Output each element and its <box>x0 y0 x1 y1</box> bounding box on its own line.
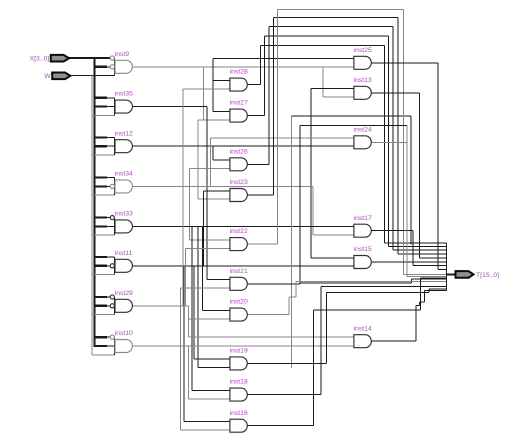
AND gate inst21 <box>230 268 248 290</box>
crossover wire y=116.2 <box>292 115 412 117</box>
wire to inst9 pin2 <box>107 66 111 68</box>
bus tap to inst34 pin2 <box>93 185 107 187</box>
wire <box>288 297 290 315</box>
inst12 -> inst15 pin1 <box>311 257 354 259</box>
wire <box>193 266 195 359</box>
wire to inst33 pin1 <box>107 217 111 219</box>
AND gate inst12 <box>115 130 134 155</box>
bus tap to inst12 pin2 <box>93 145 107 147</box>
net inst10 out <box>132 345 353 347</box>
bus tap to inst10 pin2 <box>93 345 107 347</box>
lane x=411.0 <box>410 116 412 244</box>
wire <box>187 346 189 399</box>
inst16 out -> comb <box>420 277 446 279</box>
net W to inst34 pin3 <box>92 194 115 196</box>
bus tap to inst9 pin2 <box>93 66 107 68</box>
wire <box>247 243 277 245</box>
bus tap to inst33 pin1 <box>93 217 107 219</box>
inst10 -> inst16 pin2 <box>181 429 230 431</box>
AND gate inst10 <box>110 330 133 355</box>
AND gate inst35 <box>115 91 134 116</box>
wire <box>415 306 417 342</box>
svg-text:inst24: inst24 <box>354 126 372 133</box>
wire <box>411 279 413 283</box>
inst9 -> inst23 pin2 <box>198 198 229 200</box>
svg-text:inst11: inst11 <box>115 250 133 257</box>
inst29 -> inst28 pin2 <box>183 88 230 90</box>
AND gate inst33 <box>110 211 133 236</box>
wire <box>403 10 405 275</box>
net inst35 out <box>132 106 207 108</box>
wire <box>312 310 314 426</box>
wire <box>247 362 326 364</box>
wire <box>312 186 314 235</box>
inst33 -> inst18 pin1 <box>192 389 229 391</box>
AND gate inst25 <box>354 47 372 69</box>
wire <box>387 36 389 246</box>
input port W <box>44 73 70 81</box>
wire <box>300 282 412 284</box>
net W to inst9 pin3 <box>71 75 115 77</box>
wire to inst29 pin1 <box>107 296 111 298</box>
AND gate inst11 <box>110 250 132 275</box>
wire <box>325 293 327 364</box>
AND gate inst24 <box>354 126 372 148</box>
wire to inst35 pin2 <box>107 106 115 108</box>
svg-text:inst12: inst12 <box>115 130 133 137</box>
wire <box>371 62 438 64</box>
AND gate inst28 <box>230 69 248 91</box>
wire <box>269 26 393 28</box>
svg-text:inst28: inst28 <box>230 69 248 76</box>
AND gate inst23 <box>230 179 248 201</box>
wire <box>206 107 208 280</box>
bus tap to inst29 pin2 <box>93 305 107 307</box>
wire <box>247 163 269 165</box>
crossover wire y=125.3 <box>300 124 407 126</box>
wire <box>185 248 187 305</box>
AND gate inst17 <box>354 215 372 237</box>
AND gate inst15 <box>354 246 372 268</box>
svg-text:inst35: inst35 <box>115 91 133 98</box>
inst13 out -> comb <box>419 257 446 259</box>
inst29 -> inst22 pin2 <box>186 247 230 249</box>
inst35 -> inst27 pin1 <box>213 110 229 112</box>
wire <box>418 93 420 258</box>
AND gate inst19 <box>230 348 248 370</box>
svg-text:inst15: inst15 <box>354 246 372 253</box>
svg-text:inst9: inst9 <box>115 51 130 58</box>
wire to inst34 pin1 <box>107 177 115 179</box>
svg-text:X[3..0]: X[3..0] <box>30 56 50 63</box>
wire <box>326 292 429 294</box>
wire <box>187 306 189 337</box>
inst19 out -> comb <box>429 288 447 290</box>
inst23 out -> comb <box>398 253 446 255</box>
wire <box>419 302 421 306</box>
output port T[15..0] <box>456 271 500 279</box>
bus tap to inst33 pin2 <box>93 225 107 227</box>
wire to inst29 pin2 <box>107 305 111 307</box>
AND gate inst22 <box>230 228 248 250</box>
bus join vertical <box>445 243 447 291</box>
AND gate inst18 <box>230 379 248 401</box>
inst11 -> inst16 pin1 <box>184 420 229 422</box>
inst9 -> inst13 pin2 <box>323 96 354 98</box>
inst29 -> inst20 pin2 <box>188 318 229 320</box>
wire <box>406 125 408 276</box>
wire <box>371 230 413 232</box>
inst22 out -> comb (stub line) <box>404 273 447 275</box>
inst15 out -> comb straight <box>371 261 446 263</box>
svg-text:inst29: inst29 <box>115 290 133 297</box>
wire <box>416 305 420 307</box>
inst17 out -> comb <box>413 265 446 267</box>
wire <box>197 226 199 367</box>
wire <box>320 287 322 395</box>
wire <box>371 141 407 143</box>
wire to inst34 pin2 <box>107 185 111 187</box>
net inst9 out <box>132 66 353 68</box>
wire <box>295 282 297 298</box>
inst28 out -> comb <box>384 242 446 244</box>
wire <box>371 92 419 94</box>
wire <box>322 67 324 97</box>
svg-text:inst17: inst17 <box>354 215 372 222</box>
wire to inst10 pin2 <box>107 345 115 347</box>
inst33 -> inst20 pin1 <box>203 309 230 311</box>
net W vertical <box>91 76 93 355</box>
AND gate inst26 <box>230 148 248 170</box>
net inst34 out <box>132 185 313 187</box>
stub to output port <box>446 273 455 275</box>
AND gate inst9 <box>110 51 132 76</box>
wire <box>264 36 266 116</box>
inst14 out -> comb <box>424 290 446 292</box>
inst27 out -> comb <box>388 245 446 247</box>
svg-text:inst22: inst22 <box>230 228 248 235</box>
wire <box>247 314 288 316</box>
wire <box>247 84 260 86</box>
inst20 out -> comb <box>296 281 447 283</box>
AND gate inst20 <box>230 299 248 321</box>
wire <box>247 394 321 396</box>
wire <box>397 17 399 254</box>
bus tap to inst11 pin2 <box>93 265 107 267</box>
inst34 -> inst22 pin1 <box>190 239 230 241</box>
wire <box>383 46 385 243</box>
bus tap to inst29 pin1 <box>93 296 107 298</box>
svg-text:inst26: inst26 <box>230 148 248 155</box>
bus X[3..0] vertical <box>94 58 96 346</box>
svg-text:inst10: inst10 <box>115 330 133 337</box>
wire to inst12 pin2 <box>107 145 115 147</box>
inst11 -> inst23 pin1 <box>204 190 230 192</box>
svg-text:W: W <box>44 73 51 80</box>
wire <box>278 9 404 11</box>
inst34 -> inst26 pin2 <box>190 168 230 170</box>
inst10 -> inst18 pin2 <box>188 398 229 400</box>
wire <box>313 309 420 311</box>
net inst33 out <box>132 225 353 227</box>
wire <box>265 35 389 37</box>
wire <box>203 67 205 120</box>
net W to inst35 pin3 <box>92 114 115 116</box>
svg-text:inst21: inst21 <box>230 268 248 275</box>
svg-text:inst18: inst18 <box>230 379 248 386</box>
wire <box>182 89 184 306</box>
lane x=291.5 <box>291 116 293 368</box>
wire <box>310 89 312 258</box>
inst12 -> inst26 pin1 <box>213 159 230 161</box>
inst11 -> inst19 pin1 <box>194 358 229 360</box>
wire to inst12 pin1 <box>107 136 115 138</box>
svg-text:inst27: inst27 <box>230 100 248 107</box>
wire <box>247 115 264 117</box>
inst34 -> inst24 pin1 <box>210 137 353 139</box>
wire <box>180 288 182 430</box>
AND gate inst13 <box>354 77 372 99</box>
bus tap to inst10 pin1 <box>93 336 107 338</box>
wire <box>197 120 199 199</box>
wire <box>268 27 270 165</box>
svg-text:inst13: inst13 <box>354 77 372 84</box>
wire <box>428 289 430 293</box>
inst24 out -> comb <box>407 276 447 278</box>
AND gate inst34 <box>110 171 133 196</box>
net inst11 out <box>132 265 353 267</box>
wire <box>209 138 211 186</box>
net inst29 out <box>132 305 188 307</box>
wire <box>247 425 313 427</box>
inst34 -> inst17 pin2 <box>313 234 353 236</box>
wire <box>273 16 398 18</box>
net W to inst10 pin3 <box>92 354 115 356</box>
wire <box>289 296 296 298</box>
input port X[3..0] <box>30 55 69 63</box>
bus X[3..0] to inst9 pin1 <box>69 57 110 59</box>
wire to inst35 pin1 <box>107 97 115 99</box>
svg-text:inst33: inst33 <box>115 211 133 218</box>
svg-text:inst20: inst20 <box>230 299 248 306</box>
inst35 -> inst21 pin1 <box>207 279 229 281</box>
inst35 -> inst28 pin1 <box>213 79 229 81</box>
wire <box>212 146 214 160</box>
wire <box>189 169 191 240</box>
wire <box>203 191 205 266</box>
net W to inst29 pin3 <box>92 314 115 316</box>
wire to inst11 pin2 <box>107 265 111 267</box>
inst21 out -> comb <box>412 278 447 280</box>
bus tap to inst35 pin1 <box>93 97 107 99</box>
wire <box>260 46 262 85</box>
wire <box>247 194 273 196</box>
wire <box>247 283 299 285</box>
bus tap to inst12 pin1 <box>93 136 107 138</box>
wire <box>419 278 421 310</box>
inst25 out -> comb <box>438 268 447 270</box>
wire <box>183 266 185 422</box>
svg-text:inst25: inst25 <box>354 47 372 54</box>
svg-text:inst23: inst23 <box>230 179 248 186</box>
wire <box>299 125 301 283</box>
inst9 -> inst27 pin2 <box>198 119 229 121</box>
AND gate inst27 <box>230 100 248 122</box>
inst12 -> inst13 pin1 <box>311 88 354 90</box>
wire <box>420 301 425 303</box>
AND gate inst14 <box>354 325 372 347</box>
svg-text:inst16: inst16 <box>230 410 248 417</box>
wire <box>191 226 193 390</box>
net inst12 out <box>132 145 353 147</box>
inst35 -> inst25 pin1 <box>213 58 353 60</box>
wire <box>423 291 425 302</box>
wire <box>272 17 274 195</box>
wire <box>212 59 214 112</box>
wire <box>277 10 279 245</box>
bus tap to inst11 pin1 <box>93 256 107 258</box>
net W to inst11 pin3 <box>92 274 115 276</box>
wire to inst11 pin1 <box>107 256 115 258</box>
wire to inst33 pin2 <box>107 225 115 227</box>
wire to inst10 pin1 <box>107 336 111 338</box>
wire <box>392 27 394 251</box>
inst29 -> inst14 pin1 <box>188 336 353 338</box>
bus tap to inst34 pin1 <box>93 177 107 179</box>
net W to inst12 pin3 <box>92 154 115 156</box>
bus tap to inst35 pin2 <box>93 105 107 107</box>
AND gate inst16 <box>230 410 248 432</box>
wire <box>437 63 439 270</box>
svg-text:T[15..0]: T[15..0] <box>476 272 499 279</box>
inst10 -> inst21 pin2 <box>181 287 230 289</box>
svg-text:inst19: inst19 <box>230 348 248 355</box>
svg-text:inst34: inst34 <box>115 171 133 178</box>
inst33 -> inst19 pin2 <box>198 367 230 369</box>
inst26 out -> comb <box>393 249 447 251</box>
wire <box>412 231 414 266</box>
net W to inst33 pin3 <box>92 234 115 236</box>
wire <box>202 226 204 310</box>
wire <box>371 340 416 342</box>
inst18 out -> comb <box>321 286 447 288</box>
wire <box>261 45 385 47</box>
AND gate inst29 <box>110 290 133 315</box>
svg-text:inst14: inst14 <box>354 325 372 332</box>
